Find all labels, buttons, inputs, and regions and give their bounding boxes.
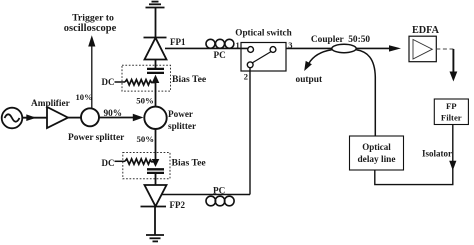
wire splitter1 to splitter2 with 90% arrow (99, 117, 134, 119)
laser diode FP2 (141, 185, 167, 207)
svg-text:FP1: FP1 (170, 37, 186, 47)
wire FP2 to ground (154, 207, 156, 236)
svg-text:Optical switch: Optical switch (235, 28, 291, 38)
coupler output branch (309, 50, 332, 64)
bias tee box (bottom) (123, 153, 170, 179)
wire capacitor to FP2 (155, 173, 157, 185)
wire down to FP filter with arrow (452, 49, 454, 73)
ground top (146, 2, 165, 8)
svg-text:Amplifier: Amplifier (31, 99, 70, 109)
wire EDFA out (thin) (436, 48, 453, 50)
resistor R1 (top bias tee) (125, 80, 156, 85)
svg-text:10%: 10% (76, 92, 93, 102)
svg-text:splitter: splitter (168, 121, 196, 131)
wire ground to FP1 (155, 8, 157, 38)
svg-text:2: 2 (244, 71, 248, 81)
svg-text:PC: PC (214, 50, 226, 60)
svg-text:FP: FP (446, 101, 457, 111)
EDFA box (409, 36, 436, 62)
wire amplifier to power splitter 1 (68, 117, 81, 119)
svg-text:50%: 50% (137, 134, 155, 144)
resistor R2 (bottom bias tee) (125, 159, 156, 164)
svg-text:Power splitter: Power splitter (68, 133, 124, 143)
svg-text:Bias Tee: Bias Tee (172, 157, 207, 168)
svg-text:PC: PC (213, 186, 225, 196)
EDFA gain triangle (413, 40, 432, 60)
wire splitter1 to trigger arrow (91, 46, 93, 109)
svg-text:Filter: Filter (441, 113, 462, 123)
switch arm wire (252, 52, 271, 63)
coupler branch to delay line (356, 50, 375, 136)
power splitter 2 (144, 107, 166, 129)
bias tee box (top) (122, 65, 171, 91)
optical delay line box (350, 136, 404, 170)
wire port2 down (249, 68, 251, 195)
wire FP filter to bottom corner (isolator path) (375, 125, 453, 185)
wire DC lead (bottom) (115, 160, 126, 162)
optical switch box (241, 43, 286, 72)
wire DC lead (top) (115, 81, 126, 83)
svg-text:FP2: FP2 (170, 200, 186, 210)
svg-text:1: 1 (236, 40, 240, 50)
wire splitter2 down with arrow to bias tee 2 (155, 129, 157, 161)
capacitor C1 (147, 69, 164, 73)
isolator arrow (449, 161, 456, 171)
svg-text:Bias Tee: Bias Tee (172, 74, 207, 85)
capacitor C2 (147, 169, 164, 173)
svg-text:Optical: Optical (362, 142, 391, 152)
laser diode FP1 (144, 38, 167, 60)
switch port 2 (247, 62, 253, 68)
svg-text:50%: 50% (136, 95, 154, 105)
svg-text:90%: 90% (104, 109, 123, 119)
wire FP1 to optical switch (165, 47, 248, 49)
wire switch to coupler to EDFA with arrow (286, 47, 390, 49)
polarization controller PC (top) (206, 39, 234, 48)
svg-text:DC: DC (102, 77, 115, 87)
svg-text:EDFA: EDFA (412, 25, 440, 36)
svg-text:oscilloscope: oscilloscope (64, 23, 117, 34)
svg-text:Isolator: Isolator (422, 148, 452, 158)
polarization controller PC (bottom) (206, 196, 234, 206)
sine source (2, 108, 23, 129)
wire bottom run to FP2 (162, 194, 250, 196)
svg-text:delay line: delay line (358, 155, 396, 165)
amplifier A1 (47, 107, 68, 128)
wire splitter2 up to bias tee with arrow (155, 77, 157, 107)
svg-text:output: output (296, 75, 323, 85)
svg-text:Coupler 50:50: Coupler 50:50 (311, 35, 371, 45)
wire source to amplifier with arrow (22, 117, 47, 119)
svg-text:Power: Power (168, 109, 193, 119)
power splitter 1 (81, 108, 99, 126)
switch port 3 (270, 47, 276, 53)
FP filter box (434, 99, 468, 125)
svg-text:Trigger to: Trigger to (72, 13, 114, 24)
svg-text:DC: DC (102, 158, 115, 168)
wire FP1 to capacitor C1 (155, 60, 157, 69)
ground bottom (146, 235, 164, 241)
switch port 1 (248, 47, 254, 53)
coupler ellipse (332, 44, 356, 52)
